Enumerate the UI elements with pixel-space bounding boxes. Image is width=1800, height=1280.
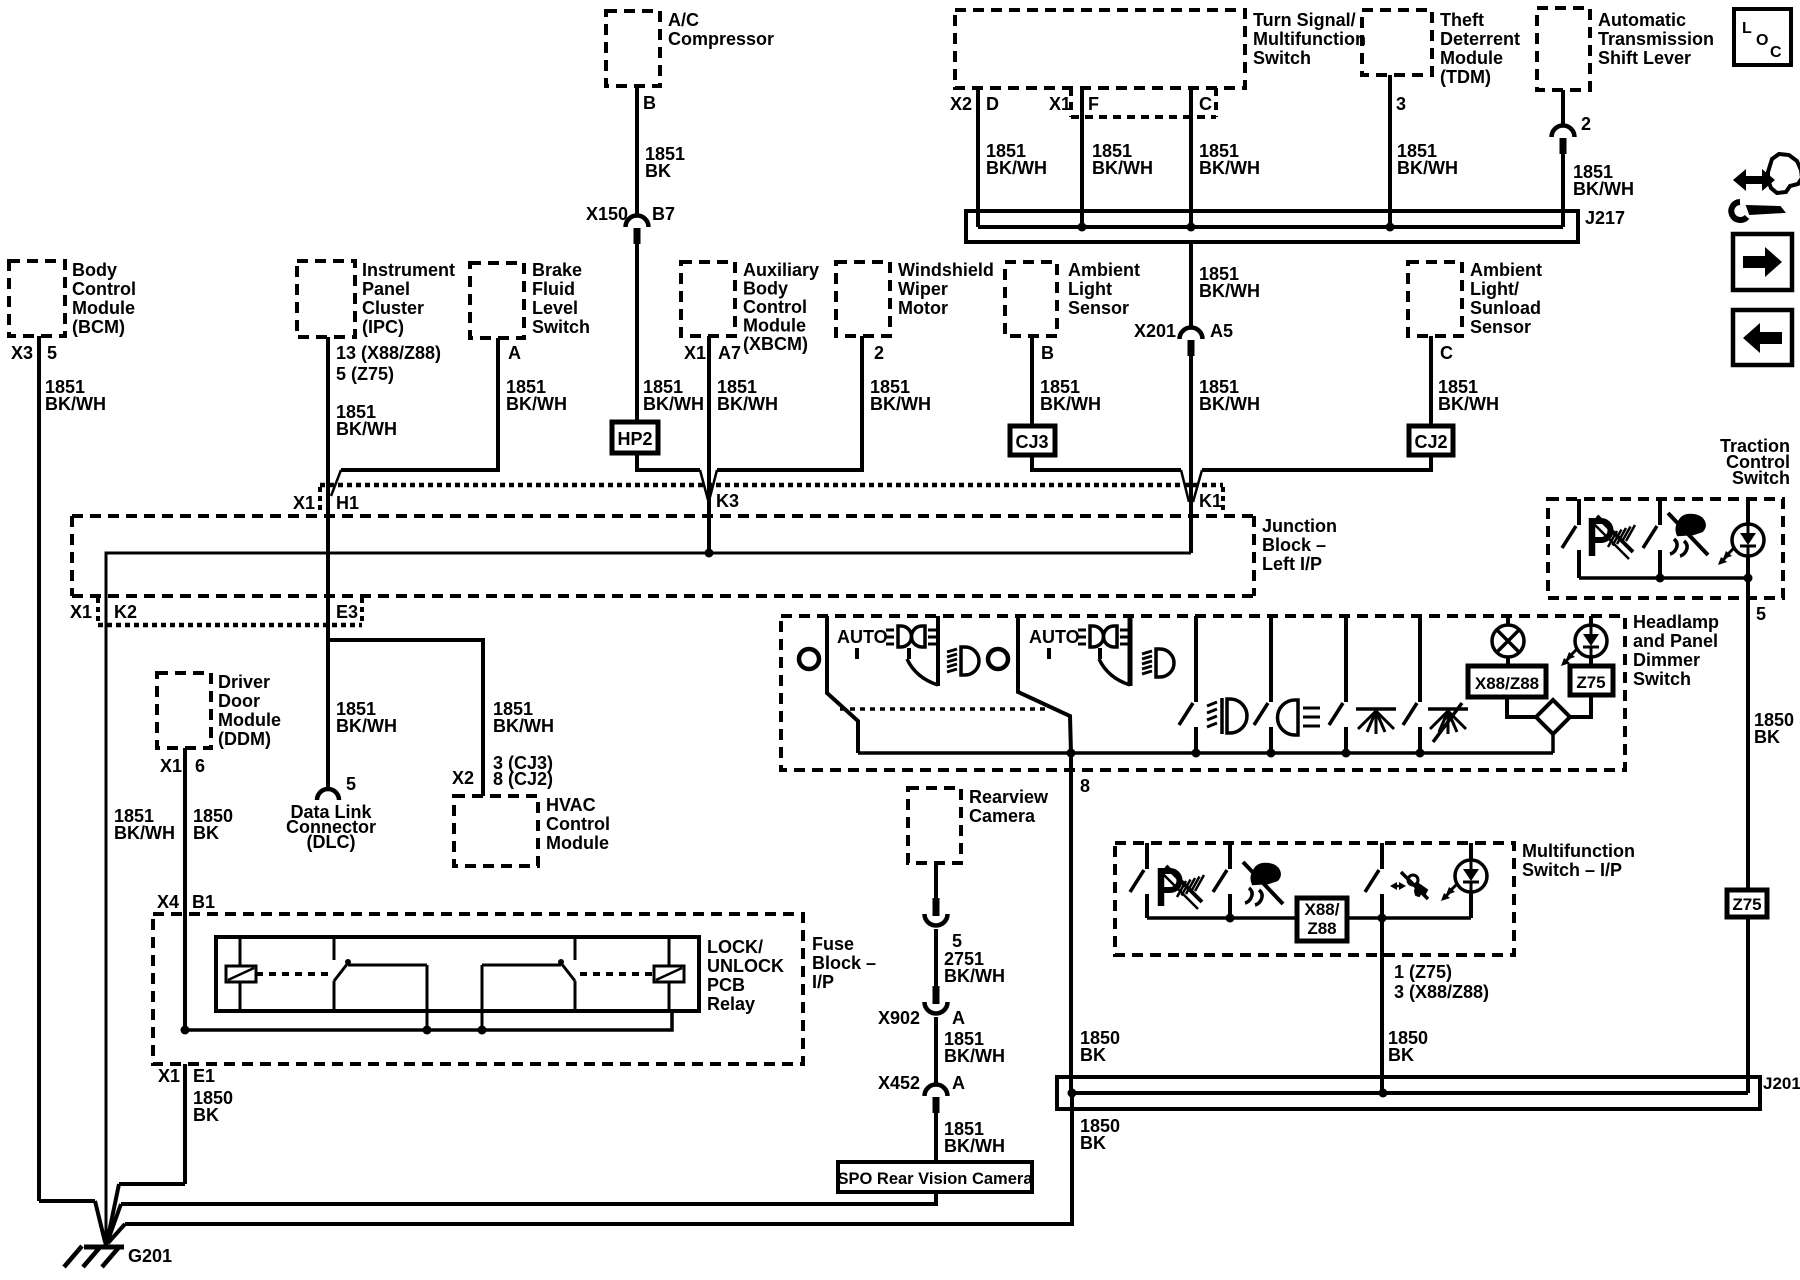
multifunction switch bus wire <box>1147 916 1471 920</box>
svg-text:X1: X1 <box>70 602 92 622</box>
slip indicator icon traction <box>1668 513 1708 556</box>
pin E3 label <box>336 602 358 622</box>
wire 1851 BK/WH from pin C to J217 <box>1191 88 1260 227</box>
svg-text:Z75: Z75 <box>1576 673 1605 692</box>
svg-text:Module: Module <box>546 833 609 853</box>
svg-text:BK/WH: BK/WH <box>643 394 704 414</box>
headlamp switch common bus wire <box>858 751 1553 755</box>
svg-text:BK: BK <box>1388 1045 1414 1065</box>
svg-text:BK/WH: BK/WH <box>336 716 397 736</box>
headlamp switch wiper rail 2 <box>1018 616 1071 753</box>
svg-text:Switch: Switch <box>532 317 590 337</box>
pin labels X1 H1 at junction block top <box>293 493 359 513</box>
pins X1 E1 at fuse block bottom <box>158 1066 215 1086</box>
svg-text:X201: X201 <box>1134 321 1176 341</box>
switch blade curve 1 <box>907 659 938 685</box>
svg-text:A: A <box>952 1008 965 1028</box>
svg-text:Body: Body <box>743 279 788 299</box>
svg-text:X1: X1 <box>1049 94 1071 114</box>
junction block connector X1 dotted edge (top) <box>320 485 1223 514</box>
key-in-ignition switch leg <box>1365 843 1382 918</box>
svg-text:Ambient: Ambient <box>1068 260 1140 280</box>
svg-text:Deterrent: Deterrent <box>1440 29 1520 49</box>
svg-text:Module: Module <box>72 298 135 318</box>
pins X1 A7 of XBCM <box>684 343 741 363</box>
wire 1851 BK/WH from pin F to J217 <box>1082 88 1153 227</box>
headlamp icon 1 <box>947 647 979 675</box>
indicator LED U3 in traction switch <box>1718 499 1764 578</box>
ground return wire from J201 to G201 <box>108 1093 1072 1243</box>
svg-text:BK/WH: BK/WH <box>493 716 554 736</box>
Theft Deterrent Module (TDM) box <box>1362 10 1520 87</box>
junction dot C at J217 <box>1187 223 1196 232</box>
forward arrow box <box>1733 234 1792 290</box>
connector plate X88/Z88 in multifunction switch <box>1297 898 1347 941</box>
svg-text:Sensor: Sensor <box>1068 298 1129 318</box>
svg-text:L: L <box>1742 20 1752 37</box>
svg-text:(TDM): (TDM) <box>1440 67 1491 87</box>
svg-text:C: C <box>1770 44 1782 61</box>
svg-text:Camera: Camera <box>969 806 1036 826</box>
svg-text:Control: Control <box>743 297 807 317</box>
LOC information box <box>1734 9 1791 65</box>
Ambient Light/Sunload Sensor box <box>1408 260 1542 337</box>
vehicle service icon <box>1731 154 1800 220</box>
svg-text:Door: Door <box>218 691 260 711</box>
svg-text:BK: BK <box>193 1105 219 1125</box>
wire from CJ3 to K1 funnel <box>1032 455 1189 502</box>
svg-text:SPO Rear Vision Camera: SPO Rear Vision Camera <box>837 1170 1033 1188</box>
splice CJ3 <box>1010 426 1055 455</box>
svg-text:1 (Z75): 1 (Z75) <box>1394 962 1452 982</box>
svg-text:BK: BK <box>645 161 671 181</box>
wire from E3 to HVAC control module <box>328 640 554 796</box>
connector plate Z75 in dimmer switch <box>1570 666 1613 695</box>
svg-text:Brake: Brake <box>532 260 582 280</box>
wire 1850 BK from DDM into fuse block <box>185 748 233 1030</box>
svg-text:BK/WH: BK/WH <box>944 1136 1005 1156</box>
park brake warning icon <box>1161 866 1204 909</box>
svg-text:Z88: Z88 <box>1307 919 1336 938</box>
junction dot park leg <box>1267 749 1276 758</box>
junction dot LED at traction bus <box>1744 574 1753 583</box>
svg-text:5: 5 <box>952 931 962 951</box>
svg-text:E3: E3 <box>336 602 358 622</box>
Traction Control Switch label <box>1720 436 1790 488</box>
wire 1851 BK from A/C compressor to X150 <box>637 86 685 217</box>
wire 1851 BK/WH from ambient light sensor to CJ3 <box>1032 336 1101 424</box>
junction dot DDM wire at relay ground <box>181 1026 190 1035</box>
svg-text:J201: J201 <box>1763 1074 1800 1093</box>
svg-text:B1: B1 <box>192 892 215 912</box>
wire 1851 BK/WH from BCM down left side <box>39 336 106 1201</box>
park brake switch leg in traction switch <box>1562 499 1579 578</box>
svg-text:X2: X2 <box>950 94 972 114</box>
Junction Block - Left I/P dashed outline <box>72 516 1337 596</box>
junction dot slip leg traction <box>1656 574 1665 583</box>
splice pack J217 <box>966 208 1625 242</box>
svg-text:A5: A5 <box>1210 321 1233 341</box>
svg-text:Dimmer: Dimmer <box>1633 650 1700 670</box>
svg-text:X150: X150 <box>586 204 628 224</box>
Automatic Transmission Shift Lever box <box>1537 8 1714 90</box>
svg-text:Level: Level <box>532 298 578 318</box>
junction dot wire 8 at J201 <box>1068 1089 1077 1098</box>
A/C Compressor connector box <box>606 10 774 86</box>
pin B of A/C compressor <box>643 93 656 113</box>
wire 1850 BK from multifunction switch to J201 <box>1382 918 1489 1093</box>
Windshield Wiper Motor box <box>836 260 994 336</box>
svg-text:BK/WH: BK/WH <box>1438 394 1499 414</box>
pin K3 label <box>716 491 739 511</box>
svg-text:X3: X3 <box>11 343 33 363</box>
junction dot K3 on bus <box>705 549 714 558</box>
svg-text:BK/WH: BK/WH <box>336 419 397 439</box>
position ticks 1 <box>857 648 909 659</box>
svg-text:Switch – I/P: Switch – I/P <box>1522 860 1622 880</box>
svg-text:3: 3 <box>1396 94 1406 114</box>
parking lamp icon <box>1278 700 1321 735</box>
junction dot multifunction wire at J201 <box>1379 1089 1388 1098</box>
wire from HP2 to K3 funnel <box>637 453 708 500</box>
pin K1 label <box>1199 491 1222 511</box>
svg-text:X452: X452 <box>878 1073 920 1093</box>
svg-text:Sensor: Sensor <box>1470 317 1531 337</box>
junction dot left switch at relay ground <box>423 1026 432 1035</box>
svg-text:G201: G201 <box>128 1246 172 1266</box>
svg-text:Junction: Junction <box>1262 516 1337 536</box>
svg-text:Sunload: Sunload <box>1470 298 1541 318</box>
Rearview Camera box <box>908 787 1049 863</box>
Driver Door Module (DDM) box <box>157 672 281 749</box>
junction dot right switch at relay ground <box>478 1026 487 1035</box>
svg-text:BK: BK <box>193 823 219 843</box>
LOCK/UNLOCK PCB Relay outline <box>216 937 784 1014</box>
svg-text:K1: K1 <box>1199 491 1222 511</box>
svg-text:AUTO: AUTO <box>1029 627 1080 647</box>
wire BCM to ground funnel <box>39 1201 105 1242</box>
svg-text:X88/: X88/ <box>1305 900 1340 919</box>
svg-text:and Panel: and Panel <box>1633 631 1718 651</box>
junction dot output at multifunction bus <box>1378 914 1387 923</box>
svg-text:Panel: Panel <box>362 279 410 299</box>
svg-text:Theft: Theft <box>1440 10 1484 30</box>
svg-text:B7: B7 <box>652 204 675 224</box>
inline connector X902 pin A <box>878 986 965 1028</box>
svg-text:BK: BK <box>1080 1133 1106 1153</box>
fog lamp switch leg <box>1179 616 1196 753</box>
svg-text:8 (CJ2): 8 (CJ2) <box>493 769 553 789</box>
svg-text:(IPC): (IPC) <box>362 317 404 337</box>
pin 3 of TDM <box>1396 94 1406 114</box>
svg-text:Module: Module <box>743 316 806 336</box>
svg-text:HVAC: HVAC <box>546 795 596 815</box>
svg-text:Cluster: Cluster <box>362 298 424 318</box>
svg-text:(XBCM): (XBCM) <box>743 334 808 354</box>
Data Link Connector (DLC) label <box>286 802 376 852</box>
junction dot slip leg at bus <box>1226 914 1235 923</box>
wire 1851 BK/WH from IPC through junction block to DLC <box>328 337 397 788</box>
svg-text:K3: K3 <box>716 491 739 511</box>
wire 1851 BK/WH from X201 to K1 <box>1191 355 1260 553</box>
svg-text:(DDM): (DDM) <box>218 729 271 749</box>
svg-text:13 (X88/Z88): 13 (X88/Z88) <box>336 343 441 363</box>
headlamp contact lead 2 <box>1128 616 1133 686</box>
pin B of ambient light sensor <box>1041 343 1054 363</box>
svg-text:B: B <box>1041 343 1054 363</box>
AUTO label 1 <box>837 627 888 647</box>
pins X3 5 of BCM <box>11 343 57 363</box>
junction dot panel leg 2 <box>1416 749 1425 758</box>
wire 1851 BK/WH from wiper motor to K3 funnel <box>710 336 931 497</box>
svg-text:5 (Z75): 5 (Z75) <box>336 364 394 384</box>
SPO Rear Vision Camera label box <box>837 1162 1033 1192</box>
panel illumination off icon <box>1428 703 1468 742</box>
svg-text:BK/WH: BK/WH <box>45 394 106 414</box>
wire 1851 BK/WH from TDM to J217 <box>1390 75 1458 227</box>
svg-text:HP2: HP2 <box>617 429 652 449</box>
svg-text:Switch: Switch <box>1633 669 1691 689</box>
pin C of sunload sensor <box>1440 343 1453 363</box>
junction dot TDM at J217 <box>1386 223 1395 232</box>
connector X1 dashed outline under turn signal switch <box>1071 88 1216 117</box>
svg-text:F: F <box>1088 94 1099 114</box>
svg-text:Transmission: Transmission <box>1598 29 1714 49</box>
AUTO label 2 <box>1029 627 1080 647</box>
svg-text:Windshield: Windshield <box>898 260 994 280</box>
svg-text:Wiper: Wiper <box>898 279 948 299</box>
svg-text:Headlamp: Headlamp <box>1633 612 1719 632</box>
key-in-ignition icon <box>1390 872 1428 899</box>
svg-text:A/C: A/C <box>668 10 699 30</box>
svg-text:Light: Light <box>1068 279 1112 299</box>
svg-text:Auxiliary: Auxiliary <box>743 260 819 280</box>
Headlamp and Panel Dimmer Switch dashed box <box>781 612 1719 770</box>
svg-text:BK/WH: BK/WH <box>1199 158 1260 178</box>
headlamp switch wiper rail 1 <box>827 616 858 753</box>
back arrow box <box>1733 310 1792 365</box>
svg-text:X88/Z88: X88/Z88 <box>1475 674 1539 693</box>
svg-text:Relay: Relay <box>707 994 755 1014</box>
indicator LED U2 in multifunction switch <box>1441 843 1487 918</box>
svg-text:Control: Control <box>546 814 610 834</box>
wire 1851 BK/WH from X150 to HP2 <box>637 243 704 422</box>
panel dim switch leg 1 <box>1329 616 1346 753</box>
svg-text:Light/: Light/ <box>1470 279 1519 299</box>
inline connector X150 pin B7 <box>586 204 675 244</box>
svg-text:Switch: Switch <box>1253 48 1311 68</box>
Fuse Block - I/P dashed outline <box>153 914 876 1064</box>
pins X1 6 of DDM <box>160 756 205 776</box>
Traction Control Switch dashed box <box>1548 499 1783 598</box>
svg-text:Driver: Driver <box>218 672 270 692</box>
wire 2751 BK/WH to X902 <box>936 929 1005 987</box>
relay ground wire across fuse block <box>185 1011 672 1030</box>
park brake switch leg in multifunction switch <box>1130 843 1147 918</box>
svg-text:BK/WH: BK/WH <box>1199 281 1260 301</box>
svg-text:X2: X2 <box>452 768 474 788</box>
svg-text:BK/WH: BK/WH <box>986 158 1047 178</box>
svg-text:(BCM): (BCM) <box>72 317 125 337</box>
svg-text:BK/WH: BK/WH <box>1040 394 1101 414</box>
svg-text:BK/WH: BK/WH <box>870 394 931 414</box>
svg-text:BK/WH: BK/WH <box>506 394 567 414</box>
svg-text:Fluid: Fluid <box>532 279 575 299</box>
junction block connector X1 dotted edge (bottom) <box>98 598 362 625</box>
svg-text:Instrument: Instrument <box>362 260 455 280</box>
junction dot fog leg <box>1192 749 1201 758</box>
svg-text:8: 8 <box>1080 776 1090 796</box>
headlamp icon 2 <box>1142 649 1174 677</box>
svg-text:(DLC): (DLC) <box>307 832 356 852</box>
ground G201 symbol <box>64 1238 172 1267</box>
svg-text:BK: BK <box>1080 1045 1106 1065</box>
mechanical link dashes left <box>256 972 330 976</box>
parking lamp switch leg <box>1254 616 1271 753</box>
inline connector pin 2 on shift lever wire <box>1552 114 1592 154</box>
pins 13 (X88/Z88) 5 (Z75) of IPC <box>336 343 441 384</box>
svg-text:X1: X1 <box>293 493 315 513</box>
slip switch leg in traction switch <box>1643 499 1660 578</box>
svg-text:B: B <box>643 93 656 113</box>
splice CJ2 <box>1409 426 1453 455</box>
svg-text:Ambient: Ambient <box>1470 260 1542 280</box>
svg-text:6: 6 <box>195 756 205 776</box>
panel illumination icon <box>1356 709 1396 734</box>
svg-text:Left I/P: Left I/P <box>1262 554 1322 574</box>
svg-text:X1: X1 <box>158 1066 180 1086</box>
connector plate X88/Z88 in dimmer switch <box>1468 666 1546 697</box>
pins X2 3 (CJ3) 8 (CJ2) of HVAC module <box>452 753 553 789</box>
wire 1851 BK/WH from connector to J217 <box>1563 153 1634 227</box>
svg-text:5: 5 <box>1756 604 1766 624</box>
svg-text:BK/WH: BK/WH <box>944 966 1005 986</box>
switch blade curve 2 <box>1099 659 1130 685</box>
svg-text:Automatic: Automatic <box>1598 10 1686 30</box>
panel lamp symbol <box>1492 616 1524 666</box>
Multifunction Switch - I/P dashed box <box>1115 841 1635 955</box>
svg-text:BK/WH: BK/WH <box>717 394 778 414</box>
svg-text:Body: Body <box>72 260 117 280</box>
svg-text:3 (X88/Z88): 3 (X88/Z88) <box>1394 982 1489 1002</box>
svg-text:C: C <box>1199 94 1212 114</box>
indicator LED U1 in dimmer switch <box>1561 616 1607 666</box>
svg-text:Block –: Block – <box>812 953 876 973</box>
panel dim switch leg 2 <box>1403 616 1420 753</box>
svg-text:Multifunction: Multifunction <box>1253 29 1366 49</box>
svg-text:BK/WH: BK/WH <box>114 823 175 843</box>
pin A of brake fluid level switch <box>508 343 521 363</box>
headlamp contact lead 1 <box>936 616 940 686</box>
inline connector DLC pin 5 <box>317 774 356 800</box>
front fog lamp icon <box>1207 698 1247 734</box>
svg-text:C: C <box>1440 343 1453 363</box>
mechanical link dashes right <box>580 972 654 976</box>
svg-text:X902: X902 <box>878 1008 920 1028</box>
pin 2 of windshield wiper motor <box>874 343 884 363</box>
relay switch right <box>482 937 575 1030</box>
svg-text:Compressor: Compressor <box>668 29 774 49</box>
wire 1851 BK/WH from X902 to X452 <box>936 1017 1005 1086</box>
splice HP2 <box>612 422 658 453</box>
wire from shift lever to connector 2 <box>1561 90 1565 127</box>
HVAC Control Module box <box>454 795 610 866</box>
svg-text:BK/WH: BK/WH <box>1573 179 1634 199</box>
svg-text:I/P: I/P <box>812 972 834 992</box>
wire 1851 BK/WH from sunload sensor to CJ2 <box>1431 336 1499 426</box>
svg-text:Fuse: Fuse <box>812 934 854 954</box>
svg-text:Motor: Motor <box>898 298 948 318</box>
svg-text:CJ3: CJ3 <box>1015 432 1048 452</box>
svg-text:BK/WH: BK/WH <box>1092 158 1153 178</box>
svg-text:BK: BK <box>1754 727 1780 747</box>
wire 1851 BK/WH from pin D to J217 <box>978 88 1047 227</box>
splice Z75 <box>1727 890 1767 917</box>
wire 1851 BK/WH from brake fluid switch to H1 <box>331 338 567 496</box>
splice pack J201 <box>1057 1074 1800 1109</box>
svg-text:5: 5 <box>47 343 57 363</box>
svg-text:CJ2: CJ2 <box>1414 432 1447 452</box>
svg-text:BK/WH: BK/WH <box>944 1046 1005 1066</box>
slip indicator icon <box>1243 862 1283 905</box>
svg-text:Multifunction: Multifunction <box>1522 841 1635 861</box>
svg-text:2: 2 <box>1581 114 1591 134</box>
inline connector pin 5 on camera wire <box>925 898 963 951</box>
svg-text:Block –: Block – <box>1262 535 1326 555</box>
svg-text:2: 2 <box>874 343 884 363</box>
wire from CJ2 to K1 funnel <box>1193 455 1431 502</box>
junction block internal ground bus wire <box>106 553 1191 1242</box>
svg-text:Module: Module <box>218 710 281 730</box>
pin labels X2 D X1 F C of turn signal switch <box>950 94 1212 114</box>
svg-text:O: O <box>1756 32 1768 49</box>
svg-text:PCB: PCB <box>707 975 745 995</box>
svg-text:X4: X4 <box>157 892 179 912</box>
svg-text:Module: Module <box>1440 48 1503 68</box>
svg-text:BK/WH: BK/WH <box>1397 158 1458 178</box>
junction dot AUTO2 leg at bus <box>1067 749 1076 758</box>
svg-text:AUTO: AUTO <box>837 627 888 647</box>
junction dot F at J217 <box>1078 223 1087 232</box>
ground return wire from SPO camera <box>107 1192 936 1243</box>
svg-text:Turn Signal/: Turn Signal/ <box>1253 10 1356 30</box>
svg-text:Switch: Switch <box>1732 468 1790 488</box>
wire 1850 BK from E1 to ground <box>107 1064 233 1242</box>
inline connector X201 pin A5 <box>1134 321 1233 356</box>
svg-text:A: A <box>952 1073 965 1093</box>
wire 8 from headlamp switch to J201 <box>1071 753 1090 1093</box>
off position circle right <box>988 649 1008 669</box>
relay switch left <box>334 937 427 1030</box>
svg-text:A7: A7 <box>718 343 741 363</box>
svg-text:5: 5 <box>346 774 356 794</box>
wire 1851 BK/WH from X452 to SPO label <box>936 1112 1005 1162</box>
junction dot panel leg 1 <box>1342 749 1351 758</box>
position ticks 2 <box>1049 648 1100 659</box>
svg-text:K2: K2 <box>114 602 137 622</box>
park brake warning icon traction <box>1592 516 1635 559</box>
exterior lamps icon 1 <box>886 626 936 647</box>
wire pin 5 from traction switch <box>1748 578 1794 890</box>
Body Control Module (BCM) box <box>9 260 136 337</box>
pin labels X1 K2 at junction block bottom <box>70 602 137 622</box>
wire 1850 BK from Z75 to J201 <box>1746 917 1750 1093</box>
svg-text:H1: H1 <box>336 493 359 513</box>
traction switch bus wire <box>1579 576 1748 580</box>
svg-text:X1: X1 <box>160 756 182 776</box>
mechanical link dotted line in headlamp switch <box>840 707 1047 711</box>
slip indicator switch leg <box>1213 843 1230 918</box>
